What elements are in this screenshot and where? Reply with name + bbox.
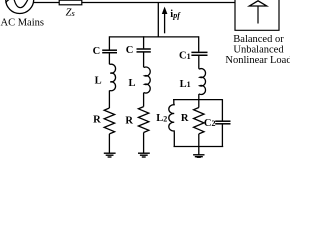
svg-text:Unbalanced: Unbalanced bbox=[233, 45, 284, 56]
inductor L2 (left side of box, bumps left) bbox=[169, 99, 175, 146]
svg-text:C: C bbox=[93, 46, 101, 57]
branch 2 wire: bus to capacitor C bbox=[143, 36, 145, 48]
impedance Zs (box) bbox=[59, 0, 82, 5]
svg-text:R: R bbox=[181, 113, 189, 124]
resistor R (branch 2) bbox=[138, 107, 148, 133]
resistor R (branch 1) bbox=[104, 108, 114, 134]
current arrow i_pf bbox=[162, 7, 168, 14]
svg-text:C: C bbox=[126, 45, 134, 56]
svg-text:Balanced or: Balanced or bbox=[233, 34, 284, 45]
svg-text:Zs: Zs bbox=[66, 7, 76, 18]
wire: feed tap from main wire down to filter bus bbox=[157, 3, 159, 37]
svg-text:L2: L2 bbox=[156, 113, 167, 124]
AC source V1 (circle, top cut off) bbox=[6, 0, 34, 14]
svg-text:Nonlinear Load: Nonlinear Load bbox=[225, 55, 290, 66]
wire: Zs to load box bbox=[82, 2, 235, 4]
svg-text:L1: L1 bbox=[180, 79, 191, 90]
capacitor C (branch 1) bbox=[102, 49, 117, 51]
capacitor C2 bbox=[215, 120, 230, 122]
wire bbox=[198, 56, 200, 69]
branch 1 wire: bus to capacitor C bbox=[108, 36, 110, 49]
svg-text:R: R bbox=[93, 115, 101, 126]
right edge upper bbox=[221, 99, 223, 121]
wire: R bottom through box to ground bbox=[198, 134, 200, 155]
load box: Balanced or Unbalanced Nonlinear Load bbox=[235, 0, 279, 30]
svg-text:L: L bbox=[95, 75, 102, 86]
parallel box top wire bbox=[173, 99, 222, 101]
svg-text:L: L bbox=[128, 78, 135, 89]
wire bbox=[108, 91, 110, 109]
capacitor C (branch 2) bbox=[137, 48, 151, 50]
wire bbox=[108, 134, 110, 153]
ground (branch 3) bbox=[193, 154, 204, 156]
wire: AC source to Zs bbox=[34, 2, 60, 4]
ground (branch 1) bbox=[104, 152, 116, 154]
wire bbox=[143, 133, 145, 154]
svg-text:ipf: ipf bbox=[170, 9, 181, 20]
capacitor C1 bbox=[191, 51, 207, 53]
wire bbox=[143, 93, 145, 107]
wire bbox=[143, 53, 145, 68]
svg-text:C2: C2 bbox=[204, 118, 216, 129]
bus wire (filter common node) bbox=[109, 36, 198, 38]
svg-text:C1: C1 bbox=[179, 51, 191, 62]
inductor L (branch 1) bbox=[109, 64, 115, 91]
inductor L (branch 2) bbox=[144, 67, 151, 93]
inductor L1 bbox=[199, 69, 206, 95]
wire bbox=[108, 53, 110, 64]
wire: L1 to parallel box top bbox=[198, 94, 200, 107]
svg-text:R: R bbox=[125, 116, 133, 127]
parallel box bottom wire bbox=[174, 146, 224, 148]
sine symbol inside AC source bbox=[6, 0, 11, 3]
branch 3 wire: bus corner down to C1 bbox=[197, 37, 200, 52]
ground (branch 2) bbox=[138, 152, 150, 154]
arrow symbol inside load box bbox=[249, 1, 266, 6]
svg-text:AC Mains: AC Mains bbox=[1, 18, 44, 29]
resistor R (branch 3) bbox=[194, 108, 204, 134]
right edge lower bbox=[221, 124, 223, 146]
